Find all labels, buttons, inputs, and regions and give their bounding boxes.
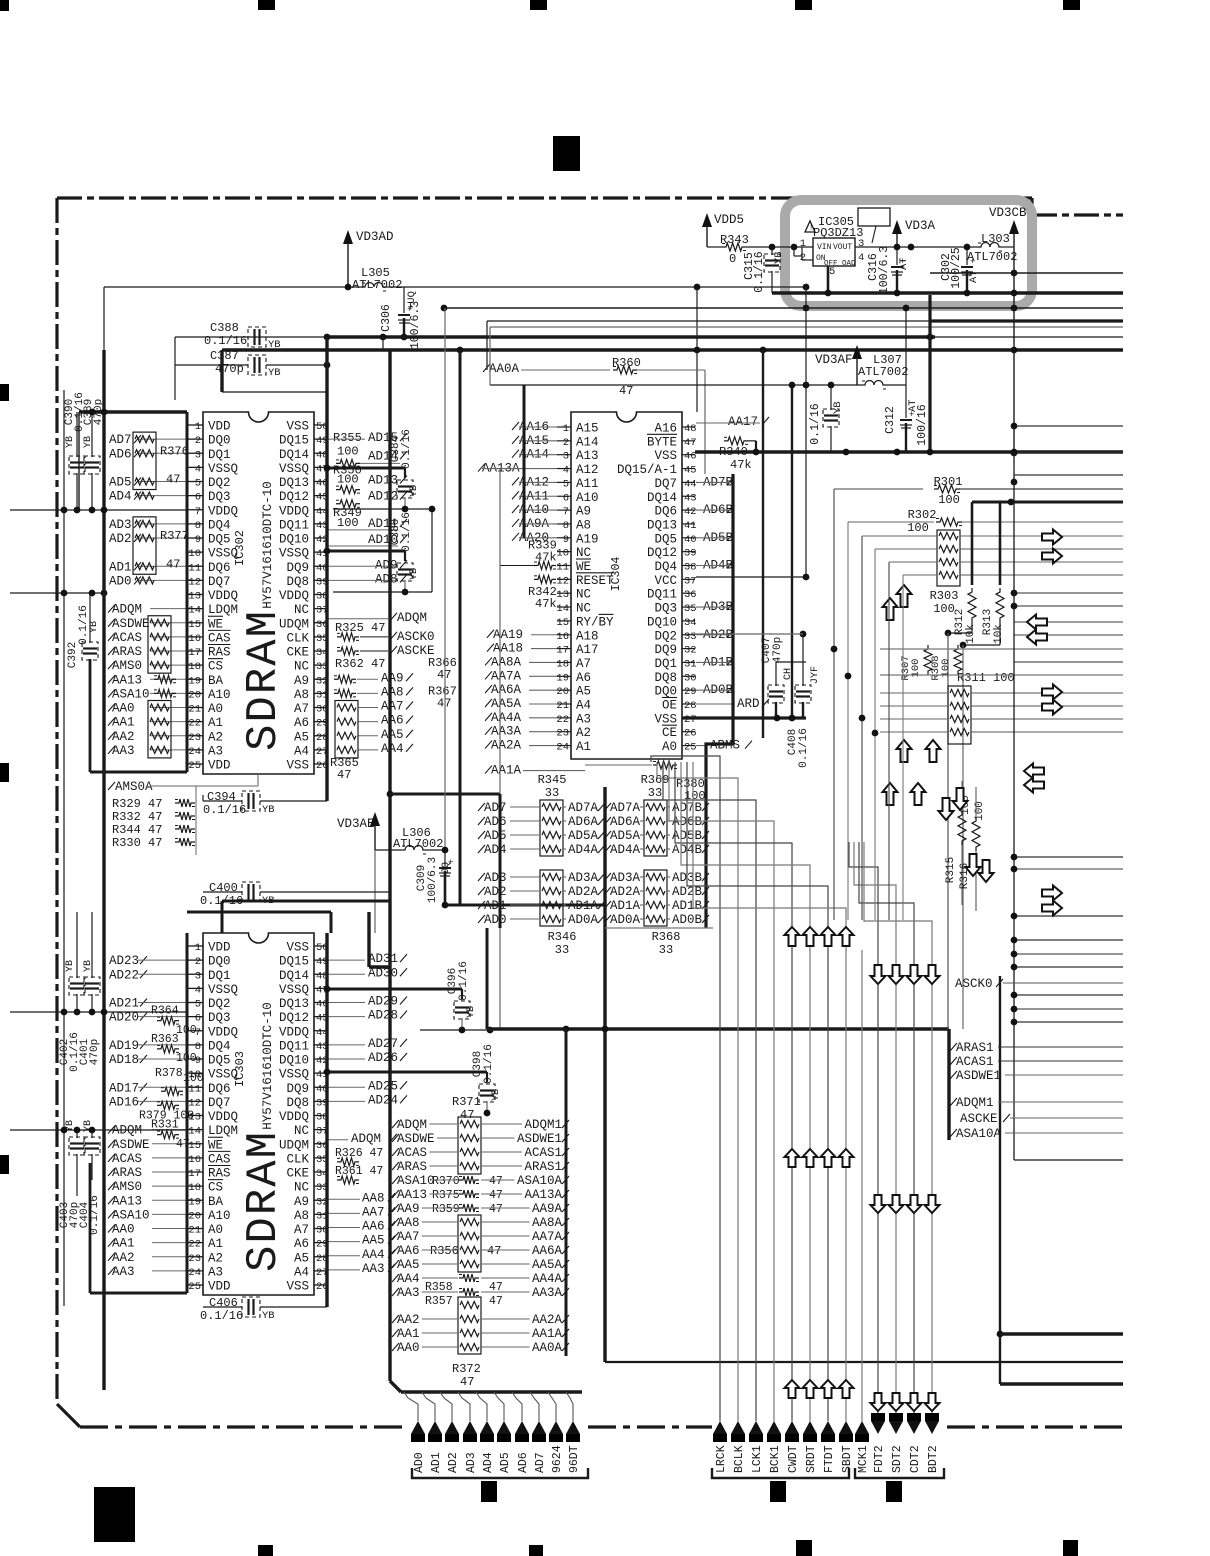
- svg-text:DQ2: DQ2: [208, 476, 231, 490]
- wire junction row y1012: [10, 1011, 187, 1013]
- node ASDWE1: [950, 1071, 957, 1079]
- svg-text:20: 20: [556, 686, 569, 698]
- wire x500 vertical (AD block left): [499, 794, 502, 928]
- connector pin LRCK: [713, 1421, 727, 1434]
- svg-text:CKE: CKE: [286, 1167, 309, 1181]
- connector pin AD5: [494, 1392, 504, 1421]
- svg-text:0.1/16: 0.1/16: [809, 403, 822, 445]
- svg-text:DQ12: DQ12: [279, 490, 309, 504]
- resistor network (AA0-AA3): [148, 701, 171, 758]
- arrow up row mid: [785, 927, 800, 946]
- IC304 pin 36 DQ11: [682, 592, 695, 594]
- svg-text:R369: R369: [641, 773, 670, 787]
- resistor R350: [336, 486, 360, 494]
- svg-text:ADQM1: ADQM1: [956, 1096, 994, 1110]
- svg-text:AD2A: AD2A: [610, 885, 641, 899]
- wire BCLK column: [657, 762, 738, 1421]
- svg-text:AD18: AD18: [109, 1053, 139, 1067]
- svg-text:CAS: CAS: [208, 1152, 231, 1166]
- svg-text:AA8: AA8: [362, 1191, 385, 1205]
- svg-text:IC302: IC302: [233, 530, 247, 566]
- connector pin 96DT: [566, 1392, 573, 1421]
- svg-text:C394: C394: [207, 790, 236, 804]
- svg-text:47k: 47k: [535, 597, 557, 611]
- bus wire y321: [487, 320, 930, 322]
- IC304 pin 25 A0: [682, 745, 695, 747]
- svg-text:A19: A19: [576, 532, 599, 546]
- wire left stub x175: [174, 337, 176, 400]
- svg-text:NC: NC: [294, 1181, 309, 1195]
- svg-text:YB: YB: [268, 367, 281, 379]
- svg-text:AA4: AA4: [381, 742, 404, 756]
- svg-text:100: 100: [907, 521, 929, 535]
- svg-text:4: 4: [858, 252, 864, 264]
- svg-text:R330 47: R330 47: [112, 836, 162, 850]
- svg-text:VD3AF: VD3AF: [815, 353, 853, 367]
- svg-text:CKE: CKE: [286, 646, 309, 660]
- svg-text:AA0: AA0: [397, 1341, 420, 1355]
- IC302 pin 23 A2: [188, 735, 203, 737]
- svg-text:AA2: AA2: [112, 1251, 135, 1265]
- bus branch lines upper right: [1014, 425, 1123, 427]
- svg-text:AD16: AD16: [109, 1095, 139, 1109]
- svg-text:YB: YB: [773, 251, 785, 264]
- svg-text:VOUT: VOUT: [833, 243, 852, 252]
- svg-text:47: 47: [437, 696, 451, 710]
- svg-text:AD5: AD5: [109, 476, 132, 490]
- svg-text:ACAS1: ACAS1: [956, 1055, 994, 1069]
- svg-text:ATL7002: ATL7002: [393, 837, 443, 851]
- svg-text:46: 46: [684, 451, 697, 463]
- svg-text:10k: 10k: [965, 624, 977, 644]
- svg-text:DQ4: DQ4: [654, 560, 677, 574]
- svg-text:A16: A16: [654, 422, 677, 436]
- svg-text:AA6: AA6: [381, 714, 404, 728]
- wire x490 vertical: [489, 327, 491, 385]
- svg-text:AD22: AD22: [109, 968, 139, 982]
- svg-text:AA1: AA1: [112, 1237, 135, 1251]
- svg-text:VSSQ: VSSQ: [279, 983, 309, 997]
- svg-text:R329 47: R329 47: [112, 797, 162, 811]
- node AA3 (IC303): [108, 1267, 115, 1275]
- bus branch lines lower right: [1014, 856, 1123, 858]
- svg-text:VSSQ: VSSQ: [208, 983, 238, 997]
- node AD19: [140, 1041, 147, 1049]
- wire stub x104: [103, 287, 105, 350]
- IC304 pin 21 A4: [557, 703, 571, 705]
- svg-text:AD7: AD7: [484, 801, 507, 815]
- svg-text:FDT2: FDT2: [873, 1445, 886, 1473]
- svg-text:A4: A4: [294, 1265, 309, 1279]
- IC302 pin 1 VDD: [188, 424, 203, 426]
- IC304 pin 42 DQ6: [682, 509, 695, 511]
- node AA14: [512, 450, 519, 458]
- svg-text:8: 8: [563, 520, 569, 532]
- node AA8 (network in): [392, 1218, 399, 1226]
- svg-text:AMS0: AMS0: [112, 1180, 142, 1194]
- node AA10: [512, 505, 519, 513]
- svg-text:A5: A5: [294, 1251, 309, 1265]
- node ADQM1: [950, 1098, 957, 1106]
- svg-text:ASA10A: ASA10A: [517, 1174, 563, 1188]
- resistor (AA8): [334, 689, 356, 697]
- node ACAS: [108, 633, 115, 641]
- warning triangle IC305: [805, 221, 815, 232]
- svg-text:C400: C400: [209, 881, 238, 895]
- svg-text:A8: A8: [294, 1209, 309, 1223]
- wire junction row y510: [10, 509, 187, 511]
- IC302 pin 30 A7: [314, 707, 327, 709]
- svg-text:AD2B: AD2B: [672, 885, 703, 899]
- svg-text:VDDQ: VDDQ: [208, 1025, 238, 1039]
- node ACAS (network in): [392, 1148, 399, 1156]
- IC303 pin 42 DQ10: [314, 1058, 327, 1060]
- IC304 pin 30 DQ8: [682, 675, 695, 677]
- svg-text:AD3A: AD3A: [568, 871, 599, 885]
- svg-text:0.1/16: 0.1/16: [89, 1195, 101, 1235]
- node AD20: [140, 1013, 147, 1021]
- wire FDT2 column: [849, 842, 878, 1413]
- resistor R355: [336, 459, 360, 467]
- IC302 pin 11 DQ6: [188, 565, 203, 567]
- svg-text:AA3: AA3: [397, 1286, 420, 1300]
- resistor strip (R329 group): [175, 799, 195, 807]
- node ASDWE (IC303): [108, 1140, 115, 1148]
- svg-text:A17: A17: [576, 643, 599, 657]
- svg-text:16: 16: [188, 1154, 201, 1166]
- svg-text:23: 23: [188, 1253, 201, 1265]
- svg-text:R370: R370: [432, 1175, 460, 1188]
- IC302 pin 31 A8: [314, 692, 327, 694]
- svg-text:1: 1: [800, 238, 806, 250]
- arrow up (signal): [821, 1380, 836, 1398]
- wire BDT2 column: [864, 842, 932, 1413]
- IC304 pin 8 A8: [557, 523, 571, 525]
- svg-text:BCK1: BCK1: [769, 1445, 782, 1473]
- IC302 pin 50 VSS: [314, 424, 327, 426]
- IC303 pin 39 DQ8: [314, 1100, 327, 1102]
- wire x763 vertical: [762, 350, 764, 738]
- svg-text:PQ3DZ13: PQ3DZ13: [813, 226, 863, 240]
- svg-text:3: 3: [563, 451, 569, 463]
- svg-text:DQ14: DQ14: [647, 491, 677, 505]
- svg-text:A2: A2: [576, 726, 591, 740]
- svg-text:5: 5: [563, 478, 569, 490]
- svg-text:AD27: AD27: [368, 1037, 398, 1051]
- IC302 pin 4 VSSQ: [188, 466, 203, 468]
- IC303 pin 8 DQ4: [188, 1044, 203, 1046]
- svg-text:AD24: AD24: [368, 1093, 398, 1107]
- svg-text:VSS: VSS: [286, 420, 309, 434]
- svg-text:VDDQ: VDDQ: [279, 1110, 309, 1124]
- svg-text:33: 33: [648, 786, 662, 800]
- svg-text:47: 47: [489, 1175, 503, 1188]
- resistor R358: [459, 1274, 479, 1282]
- wire CDT2 column: [859, 842, 914, 1413]
- node ARAS1: [950, 1043, 957, 1051]
- svg-text:NC: NC: [576, 588, 591, 602]
- IC302 pin 8 DQ4: [188, 523, 203, 525]
- node ASA10 (network in): [392, 1176, 399, 1184]
- svg-text:DQ10: DQ10: [279, 1054, 309, 1068]
- wire x705 feed: [704, 370, 706, 474]
- arrow right pair C: [1042, 886, 1062, 901]
- svg-text:R356: R356: [430, 1244, 459, 1258]
- svg-text:AA7A: AA7A: [491, 669, 522, 683]
- svg-text:AA8: AA8: [381, 685, 404, 699]
- node AD18: [140, 1055, 147, 1063]
- svg-text:AD4: AD4: [482, 1452, 495, 1473]
- svg-text:DQ8: DQ8: [286, 1096, 309, 1110]
- wire y905 thick: [444, 904, 605, 907]
- svg-text:33: 33: [684, 631, 697, 643]
- connector pin AD3: [458, 1392, 470, 1421]
- node AA3 (network in): [392, 1288, 399, 1296]
- svg-text:18: 18: [188, 661, 201, 673]
- node AA2: [108, 732, 115, 740]
- IC304 pin 20 A5: [557, 689, 571, 691]
- wire signal column x834: [833, 489, 835, 920]
- svg-text:0.1/16: 0.1/16: [204, 334, 247, 348]
- resistor network R346: [540, 870, 563, 926]
- svg-text:AD3A: AD3A: [610, 871, 641, 885]
- svg-text:13: 13: [556, 589, 569, 601]
- svg-text:AA8A: AA8A: [532, 1216, 563, 1230]
- svg-text:5: 5: [195, 999, 201, 1011]
- svg-text:2: 2: [563, 437, 569, 449]
- IC304 pin 34 DQ10: [682, 620, 695, 622]
- node ASA10: [108, 689, 115, 697]
- IC303 pin 28 A5: [314, 1256, 327, 1258]
- IC304 pin 1 A15: [557, 426, 571, 428]
- svg-text:A9: A9: [294, 1195, 309, 1209]
- svg-text:ARAS: ARAS: [112, 1166, 142, 1180]
- IC303 pin 31 A8: [314, 1213, 327, 1215]
- svg-text:NC: NC: [294, 1124, 309, 1138]
- wire SDT2 column: [854, 842, 896, 1413]
- IC303 pin 11 DQ6: [188, 1086, 203, 1088]
- power flag VDD5: [702, 213, 712, 227]
- connector pin AD1: [422, 1392, 435, 1421]
- svg-text:21: 21: [188, 1225, 201, 1237]
- IC303 pin 45 DQ12: [314, 1016, 327, 1018]
- arrow up pair B: [897, 740, 912, 762]
- IC304 pin 27 VSS: [682, 717, 695, 719]
- wire CWDT column: [675, 762, 792, 1421]
- connector pin SRDT: [803, 1421, 817, 1434]
- node AA0: [108, 704, 115, 712]
- svg-text:A7: A7: [294, 1223, 309, 1237]
- svg-text:23: 23: [188, 732, 201, 744]
- svg-text:A10: A10: [208, 688, 231, 702]
- IC304 pin 33 DQ2: [682, 634, 695, 636]
- svg-text:R364: R364: [151, 1005, 179, 1018]
- svg-text:C387: C387: [210, 349, 239, 363]
- resistor network R311: [948, 686, 971, 744]
- svg-text:DQ9: DQ9: [286, 1082, 309, 1096]
- junction dots on columns: [831, 646, 838, 653]
- svg-text:VD3A: VD3A: [905, 219, 936, 233]
- IC302 pin 40 DQ9: [314, 565, 327, 567]
- svg-text:4: 4: [563, 465, 569, 477]
- svg-text:AA0: AA0: [112, 1223, 135, 1237]
- wire x327 vertical thick: [325, 337, 328, 801]
- svg-text:AD5A: AD5A: [610, 829, 641, 843]
- svg-text:CWDT: CWDT: [787, 1445, 800, 1473]
- svg-text:ASA10: ASA10: [112, 687, 150, 701]
- svg-text:A1: A1: [208, 1237, 223, 1251]
- svg-text:AA4: AA4: [397, 1272, 420, 1286]
- svg-text:A5: A5: [294, 730, 309, 744]
- IC303 pin 26 VSS: [314, 1284, 327, 1286]
- svg-text:100: 100: [337, 516, 359, 530]
- callout box: [858, 208, 890, 226]
- svg-text:40: 40: [684, 534, 697, 546]
- svg-text:AD4A: AD4A: [610, 843, 641, 857]
- IC303 pin 23 A2: [188, 1256, 203, 1258]
- svg-text:6: 6: [563, 492, 569, 504]
- connector pin LCK1: [749, 1421, 763, 1434]
- svg-text:1: 1: [195, 421, 201, 433]
- arrow down (signal): [889, 1393, 904, 1411]
- svg-text:9: 9: [563, 534, 569, 546]
- node AMS0: [108, 661, 115, 669]
- svg-text:VDDQ: VDDQ: [279, 1025, 309, 1039]
- arrow down (signal): [889, 1195, 904, 1213]
- svg-text:21: 21: [188, 704, 201, 716]
- svg-text:47: 47: [460, 1375, 474, 1389]
- svg-text:DQ9: DQ9: [654, 643, 677, 657]
- svg-text:AD21: AD21: [109, 997, 139, 1011]
- svg-text:CH: CH: [783, 668, 794, 680]
- IC304 pin 32 DQ9: [682, 648, 695, 650]
- IC304 pin 6 A10: [557, 495, 571, 497]
- IC303 pin 13 VDDQ: [188, 1115, 203, 1117]
- svg-text:A6: A6: [294, 716, 309, 730]
- wire x460 vertical thick: [459, 350, 462, 905]
- node AA7 (network in): [392, 1232, 399, 1240]
- node AA13A wire: [499, 469, 501, 928]
- svg-text:AA3A: AA3A: [532, 1286, 563, 1300]
- svg-text:43: 43: [684, 492, 697, 504]
- svg-text:5: 5: [829, 266, 835, 278]
- IC302 pin 12 DQ7: [188, 579, 203, 581]
- regulator ground rail: [772, 291, 1123, 294]
- arrow left pair B: [1024, 764, 1044, 779]
- arrow down (signal): [871, 1195, 886, 1213]
- svg-text:AA6: AA6: [362, 1220, 385, 1234]
- wire x697 vertical: [696, 350, 698, 412]
- svg-text:R357: R357: [425, 1295, 453, 1308]
- node AA20: [512, 533, 519, 541]
- wire junction row y1130: [10, 1129, 187, 1131]
- svg-text:DQ10: DQ10: [647, 615, 677, 629]
- svg-text:AA5: AA5: [397, 1258, 420, 1272]
- arrow right pair A: [1042, 530, 1062, 545]
- svg-text:AA8: AA8: [397, 1216, 420, 1230]
- node ASDWE: [108, 619, 115, 627]
- svg-text:AD2: AD2: [484, 885, 507, 899]
- svg-text:VSS: VSS: [286, 759, 309, 773]
- svg-text:22: 22: [556, 714, 569, 726]
- svg-text:29: 29: [684, 686, 697, 698]
- svg-text:A18: A18: [576, 629, 599, 643]
- svg-text:47: 47: [337, 768, 351, 782]
- svg-text:30: 30: [684, 672, 697, 684]
- svg-text:AA7: AA7: [362, 1205, 385, 1219]
- svg-text:14: 14: [188, 605, 201, 617]
- node ARAS (IC303): [108, 1168, 115, 1176]
- wire pin5 to ground rail: [827, 266, 830, 293]
- svg-text:R345: R345: [538, 773, 567, 787]
- IC303 pin 16 CAS: [188, 1157, 203, 1159]
- node ADQM (network in): [392, 1120, 399, 1128]
- IC303 pin 4 VSSQ: [188, 987, 203, 989]
- svg-text:ADQM: ADQM: [397, 611, 427, 625]
- svg-text:CAS: CAS: [208, 631, 231, 645]
- svg-text:ADQM: ADQM: [112, 603, 142, 617]
- IC302 pin 21 A0: [188, 707, 203, 709]
- IC304 pin 44 DQ7: [682, 481, 695, 483]
- svg-text:A10: A10: [208, 1209, 231, 1223]
- IC304 pin 9 A19: [557, 537, 571, 539]
- wire signal column x862: [861, 536, 863, 920]
- svg-text:CLK: CLK: [286, 631, 309, 645]
- IC302 pin 2 DQ0: [188, 438, 203, 440]
- IC304 pin 18 A7: [557, 661, 571, 663]
- svg-text:21: 21: [556, 700, 569, 712]
- svg-text:AA3: AA3: [112, 744, 135, 758]
- resistor R342: [534, 575, 556, 583]
- node ASA10 (IC303): [108, 1210, 115, 1218]
- connector pin BDT2: [925, 1413, 939, 1421]
- svg-text:A5: A5: [576, 685, 591, 699]
- wire x792 vertical: [791, 385, 793, 718]
- svg-text:ATL7002: ATL7002: [858, 365, 908, 379]
- IC304 pin 22 A3: [557, 717, 571, 719]
- node AA5 (network in): [392, 1260, 399, 1268]
- svg-text:AD0A: AD0A: [568, 913, 599, 927]
- svg-text:A2: A2: [208, 730, 223, 744]
- svg-text:DQ6: DQ6: [208, 561, 231, 575]
- svg-text:A15: A15: [576, 422, 599, 436]
- svg-text:3: 3: [195, 970, 201, 982]
- bracket group 3: [855, 1468, 944, 1478]
- svg-text:A7: A7: [294, 702, 309, 716]
- svg-text:28: 28: [684, 700, 697, 712]
- svg-text:AD0B: AD0B: [672, 913, 703, 927]
- resistor (AD16): [157, 1101, 179, 1109]
- svg-text:R343: R343: [720, 233, 749, 247]
- arrow down (signal): [907, 1393, 922, 1411]
- svg-text:R378: R378: [155, 1067, 183, 1080]
- IC303 pin 40 DQ9: [314, 1086, 327, 1088]
- power flag VD3AF: [852, 345, 862, 359]
- arrow down (signal): [907, 1195, 922, 1213]
- connector pin SDT2: [889, 1413, 903, 1421]
- svg-text:YB: YB: [65, 436, 76, 448]
- svg-text:DQ5: DQ5: [208, 533, 231, 547]
- node AD17: [140, 1083, 147, 1091]
- IC302 pin 18 CS: [188, 664, 203, 666]
- arrow up pair C: [883, 783, 898, 805]
- IC302 pin 26 VSS: [314, 763, 327, 765]
- svg-text:100/6.3: 100/6.3: [427, 857, 439, 903]
- svg-text:DQ8: DQ8: [286, 575, 309, 589]
- svg-text:AD25: AD25: [368, 1079, 398, 1093]
- wire BCK1 column: [669, 762, 774, 1421]
- wire SBDT column: [693, 762, 846, 1421]
